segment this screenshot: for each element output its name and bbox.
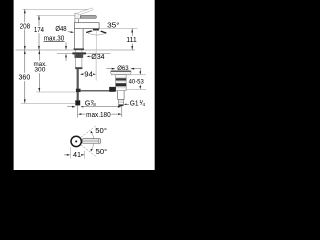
- svg-text:8: 8: [93, 102, 96, 107]
- svg-text:94: 94: [84, 70, 93, 79]
- drain body dark band 1: [116, 78, 127, 80]
- upper leader row: arrow into hose nut left: [67, 106, 72, 108]
- drain threaded end: [119, 100, 124, 105]
- hose clamp connector: [76, 89, 81, 92]
- right tick at drain tailpipe: [121, 103, 123, 117]
- top view lower swing arc with arrow: [91, 144, 93, 151]
- supply hose: [77, 69, 79, 101]
- svg-text:G1: G1: [130, 98, 139, 107]
- dimension 208 arrows: [24, 9, 26, 13]
- dimension max300 vertical: [38, 50, 40, 61]
- faucet body cylinder: [75, 29, 84, 50]
- top view circle body: [71, 136, 81, 146]
- svg-text:208: 208: [20, 21, 31, 30]
- dimension max.180 line: [81, 113, 85, 115]
- threaded shank: [76, 50, 82, 69]
- dimension 111 line: [131, 29, 133, 37]
- dimension 111 extension line: [99, 28, 137, 30]
- svg-text:300: 300: [34, 67, 45, 74]
- drain flange: [111, 71, 131, 75]
- left tick at hose (extension below nut): [77, 105, 79, 117]
- faucet neck below cap: [75, 19, 79, 23]
- drain tailpipe: [118, 91, 124, 100]
- dimension 40-53 arrows: [139, 69, 141, 72]
- svg-text:35°: 35°: [107, 20, 120, 29]
- lower extension line for 40-53: [126, 88, 146, 90]
- label Ø48 leader arrow: [68, 31, 71, 33]
- svg-text:40-53: 40-53: [129, 79, 144, 86]
- svg-text:4: 4: [143, 102, 146, 107]
- svg-text:360: 360: [19, 74, 31, 81]
- water stream line: [95, 30, 97, 50]
- dimension 94 arrows: [80, 73, 84, 75]
- top view 50 degree lower dashed line: [81, 145, 96, 156]
- svg-text:50°: 50°: [95, 127, 107, 135]
- drain pipe dark tip: [119, 105, 124, 106]
- dimension 208 vertical line: [24, 9, 26, 22]
- shank end nut dark: [75, 67, 82, 69]
- dimension 41: [70, 147, 72, 158]
- max300 horizontal foot: [36, 91, 75, 93]
- 35 degree arc: [88, 33, 105, 35]
- dimension 94 extension line: [95, 51, 97, 81]
- svg-text:41: 41: [73, 150, 81, 159]
- dimension 360 vertical: [24, 50, 26, 73]
- top view center dot: [75, 140, 77, 142]
- svg-text:174: 174: [34, 25, 44, 34]
- drain body light lines: [116, 76, 126, 78]
- 360 horizontal foot: [21, 102, 76, 104]
- right margin bar: [155, 0, 170, 170]
- svg-text:Ø48: Ø48: [55, 24, 66, 33]
- dimension 174 vertical line: [38, 16, 40, 27]
- deck bottom line: [57, 52, 111, 54]
- 35 degree spray cone dashes: [86, 30, 97, 32]
- extension line 174 level: [37, 15, 80, 17]
- drain body: [116, 75, 126, 91]
- rod coupling nut: [109, 87, 116, 92]
- dimension 174 arrows: [38, 16, 40, 20]
- svg-text:50°: 50°: [96, 148, 108, 156]
- open lever (raised position, outline): [78, 8, 93, 15]
- svg-text:max.180: max.180: [86, 112, 111, 119]
- mounting washer and nut below deck: [72, 52, 86, 54]
- faucet top cap / cartridge housing: [75, 13, 81, 18]
- drain body dark band 2: [116, 83, 127, 86]
- drain dimension Ø63: [106, 68, 111, 70]
- extension line top (208 level): [23, 8, 88, 10]
- top view 50 degree upper dashed line: [81, 126, 96, 137]
- aerator dark: [93, 29, 99, 31]
- flange bottom extension line: [111, 74, 146, 76]
- 35 degree cone arrow marks: [86, 31, 92, 33]
- mounting base ring: [74, 48, 84, 50]
- top view upper swing arc with arrow: [91, 131, 93, 138]
- deck top line: [16, 49, 136, 51]
- content sheet: [14, 0, 155, 170]
- pop-up rod: [81, 90, 110, 92]
- closed lever (horizontal, gray): [80, 15, 96, 18]
- left margin bar: [0, 0, 14, 170]
- svg-text:Ø34: Ø34: [91, 52, 104, 61]
- top view lever: [82, 139, 100, 144]
- G7/8 leader line continuing right to drain tick: [83, 106, 118, 108]
- faucet spout arm block: [75, 23, 100, 29]
- dimension max30 arrows at deck: [65, 46, 67, 50]
- svg-text:111: 111: [126, 35, 137, 44]
- hose end nut G7/8: [75, 100, 80, 105]
